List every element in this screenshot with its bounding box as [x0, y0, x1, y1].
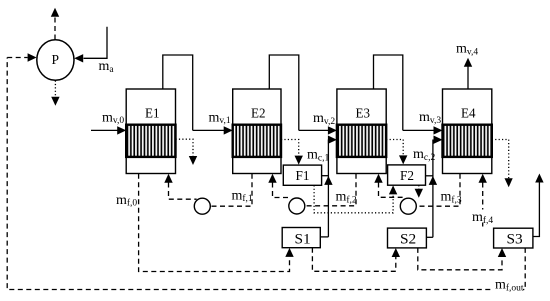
svg-text:mf,3: mf,3 [441, 190, 462, 206]
label mf,out [494, 281, 524, 291]
arrow mv,2 into E3 [299, 126, 337, 134]
svg-text:mf,4: mf,4 [472, 210, 493, 226]
pump circle 2 [289, 198, 305, 214]
svg-text:S1: S1 [295, 232, 311, 248]
evaporator E3 [337, 89, 386, 174]
dotted condensate arrow from E4 [492, 140, 513, 188]
svg-text:mf,1: mf,1 [232, 188, 253, 204]
svg-text:E3: E3 [356, 107, 371, 122]
separator S2 [388, 228, 427, 248]
arrow mv,1 into E2 [193, 126, 233, 134]
dashed S1 bottom to S2 [312, 248, 400, 272]
wire S3 output arrow up [533, 174, 544, 237]
wire S1 right connector [320, 236, 328, 238]
svg-text:F2: F2 [400, 169, 414, 184]
svg-text:mv,1: mv,1 [209, 110, 231, 126]
svg-text:S3: S3 [507, 232, 523, 248]
dashed mf,3 from E4 to pump 3 [416, 174, 460, 207]
flash tank F1 [283, 165, 321, 185]
separator S1 [282, 228, 320, 248]
svg-text:S2: S2 [400, 232, 416, 248]
wire vapor duct E1 to E2 [163, 55, 193, 130]
dotted line F1 bottom to F2 bottom [314, 185, 397, 213]
arrow mv,4 out of E4 top [464, 58, 472, 89]
svg-text:mv,2: mv,2 [313, 111, 335, 127]
svg-text:mf,0: mf,0 [116, 193, 137, 209]
pump circle 1 [194, 198, 210, 214]
evaporator E1 [126, 89, 175, 174]
pump P [37, 40, 74, 81]
svg-text:mc,2: mc,2 [413, 147, 435, 163]
flash tank F2 [388, 165, 426, 185]
dashed S2 bottom to S3 [418, 248, 506, 270]
wire vapor duct E3 to E4 [374, 55, 403, 130]
svg-text:E2: E2 [251, 107, 266, 122]
evaporator E2 [233, 89, 281, 174]
svg-text:E1: E1 [145, 107, 160, 122]
dashed arrow feed into E3 bottom [374, 174, 402, 198]
arrow mv,0 into E1 [91, 126, 126, 134]
svg-text:mv,3: mv,3 [419, 110, 441, 126]
svg-text:ma: ma [99, 59, 115, 75]
dashed arrow feed into E2 bottom [268, 174, 291, 198]
svg-text:mv,4: mv,4 [456, 42, 478, 58]
evaporator E4 [443, 89, 492, 174]
svg-text:mc,1: mc,1 [307, 148, 329, 164]
dashed arrow feed mf,4 into E4 bottom [479, 174, 487, 227]
dotted condensate mc,1 from E2 into F1 [281, 140, 303, 165]
svg-text:P: P [52, 52, 60, 67]
wire riser S2+F2 vapor into E4 [429, 136, 443, 238]
wire ma solid inlet [74, 27, 107, 63]
wire F1 right connector [322, 175, 329, 177]
svg-text:mv,0: mv,0 [102, 110, 124, 126]
pump circle 3 [400, 198, 416, 214]
dotted arrow down from P [51, 81, 59, 106]
dashed arrow up from P [51, 8, 59, 40]
svg-text:E4: E4 [461, 107, 476, 122]
dotted arrow down from F2 bottom [415, 185, 423, 198]
dotted condensate arrow from E1 [176, 139, 198, 165]
svg-text:mf,2: mf,2 [336, 190, 357, 206]
dashed arrow into P from left [7, 53, 36, 61]
wire F2 right connector [426, 175, 433, 177]
dashed mf,1 from E2 to pump 1 [210, 174, 252, 207]
dashed S3 bottom recycle mf,out to P [7, 58, 525, 290]
dotted condensate mc,2 from E3 into F2 [386, 140, 407, 165]
dashed feed mf,0 from E1 to S1 [139, 174, 294, 272]
arrow mv,3 into E4 [403, 126, 443, 134]
wire riser S1+F1 vapor into E3 [324, 136, 337, 237]
wire S2 right connector [426, 236, 433, 238]
svg-text:F1: F1 [296, 169, 310, 184]
dashed mf,2 from E3 to pump 2 [305, 174, 356, 206]
wire vapor duct E2 to E3 [269, 55, 299, 130]
separator S3 [494, 228, 533, 248]
dashed arrow feed into E1 bottom [164, 174, 196, 200]
svg-text:mf,out: mf,out [495, 278, 524, 294]
